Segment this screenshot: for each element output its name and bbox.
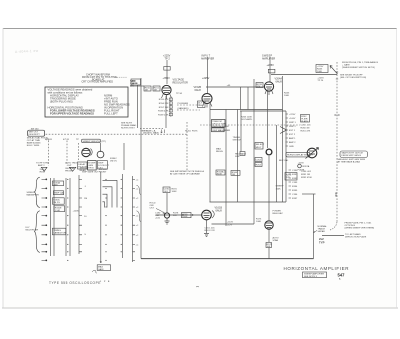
svg-text:820K: 820K	[217, 174, 223, 176]
label box R262	[301, 115, 310, 123]
label box sel note	[131, 79, 141, 85]
svg-text:1.5M: 1.5M	[55, 210, 60, 212]
label R184C	[110, 158, 117, 163]
label power regulator	[273, 211, 284, 216]
label +110V +12V	[227, 222, 234, 227]
arrow into mag gain	[100, 261, 102, 263]
svg-text:+12V: +12V	[227, 225, 233, 227]
tube V152B	[202, 94, 212, 104]
shield dashed wire vertical x337	[336, 62, 338, 222]
svg-text:MAIN: MAIN	[153, 132, 159, 135]
sweep cal wire x124	[123, 143, 125, 170]
handwriting mark n	[196, 285, 199, 288]
switch contact marks left	[42, 179, 47, 261]
svg-text:+350V: +350V	[163, 77, 171, 80]
terminal strip A labels	[289, 114, 297, 148]
svg-text:AMPLIFIER: AMPLIFIER	[262, 57, 275, 60]
title note box	[303, 272, 327, 278]
ganged dashed h y110	[177, 109, 200, 111]
timebase dashed stub	[140, 128, 163, 130]
tick labels x135	[136, 179, 139, 246]
right stack labels B	[301, 171, 312, 179]
label plunger ganged	[178, 103, 189, 110]
svg-text:SW 160: SW 160	[31, 129, 40, 131]
switch header b	[65, 167, 74, 173]
label V161 6AU8	[215, 207, 223, 213]
trace separ pointer	[314, 231, 318, 233]
svg-text:(GANGED): (GANGED)	[178, 107, 189, 110]
label help tick	[185, 131, 198, 133]
resistor R164	[216, 170, 225, 175]
switch header d	[99, 169, 108, 174]
svg-text:TYP: TYP	[319, 240, 325, 244]
svg-text:AMP 1: AMP 1	[289, 137, 296, 140]
grid flag V161	[212, 211, 214, 219]
wire C190 to holdoff	[166, 193, 168, 213]
bus wire vertical x286	[285, 111, 287, 202]
updown arrow mark	[335, 193, 336, 197]
timing switch wire x66	[65, 178, 67, 256]
note to left hand plate	[345, 233, 367, 239]
cathode wire x166	[165, 96, 167, 128]
svg-text:CKT: CKT	[150, 208, 155, 210]
resistor box R160C	[52, 198, 64, 204]
note text to pulse regulator	[342, 61, 378, 69]
resistor chain R155 group	[169, 96, 172, 117]
svg-text:R281 1M: R281 1M	[301, 174, 310, 176]
dashed drop x48	[48, 141, 50, 166]
svg-text:R261 47K: R261 47K	[301, 131, 311, 133]
label auto stab	[273, 237, 279, 243]
label mag regis	[216, 148, 223, 154]
label +225V R267 plate	[298, 163, 310, 172]
label V264A 6AU8	[275, 78, 283, 84]
svg-text:547: 547	[338, 273, 346, 278]
svg-text:BDX CAL: BDX CAL	[279, 159, 289, 162]
note text above voltage box	[82, 73, 118, 83]
resistor R176	[266, 243, 272, 248]
input wire x137	[137, 85, 139, 128]
note from plate pin	[345, 222, 375, 230]
label +350V regulator	[163, 77, 189, 84]
pin fan V152B	[203, 103, 213, 108]
svg-text:(BOTH PLUG-INS): (BOTH PLUG-INS)	[50, 100, 73, 104]
svg-text:TRIG: TRIG	[88, 167, 94, 169]
svg-text:DIST AMPL: DIST AMPL	[241, 118, 253, 121]
label R175 100K	[256, 219, 262, 224]
holdoff pointer curve	[156, 209, 165, 214]
svg-text:CRT CATHODE AMPLIFIED: CRT CATHODE AMPLIFIED	[82, 80, 114, 83]
svg-text:TYPE 555 OSCILLOSCOPE: TYPE 555 OSCILLOSCOPE	[49, 281, 101, 285]
svg-text:R267A: R267A	[303, 165, 310, 168]
bus wire vertical x226	[225, 110, 227, 227]
label dist ampl	[241, 116, 253, 121]
tube V114B small	[97, 151, 104, 158]
switch header a	[40, 169, 46, 174]
connector J267	[298, 164, 302, 168]
svg-text:R157 10K: R157 10K	[159, 107, 169, 109]
svg-text:C264: C264	[256, 159, 262, 161]
resistor R152 on supply wire	[164, 67, 170, 71]
amplifier enclosure bottom wire	[141, 258, 314, 260]
svg-text:471 R: 471 R	[63, 139, 69, 141]
tube V161	[202, 210, 212, 220]
svg-text:6AU8: 6AU8	[216, 209, 223, 212]
resistor box R239	[256, 83, 263, 88]
svg-text:GND: GND	[289, 146, 294, 148]
bus wire vertical x267 lower	[268, 156, 270, 220]
svg-text:HOLD: HOLD	[185, 131, 191, 133]
short wire x248	[247, 87, 249, 110]
svg-text:1M: 1M	[84, 198, 87, 200]
svg-text:R159 2.2K: R159 2.2K	[158, 114, 169, 116]
svg-text:PLATE: PLATE	[298, 169, 305, 172]
bus wire vertical x276	[276, 125, 278, 202]
resistor box R264	[255, 163, 262, 167]
resistor box R160A	[52, 181, 63, 186]
dashed drop x67	[66, 141, 68, 166]
contact dots column x121	[121, 179, 122, 253]
cathode wire y224	[212, 223, 255, 225]
junction dot holdoff a	[182, 214, 183, 215]
svg-text:6AU8: 6AU8	[195, 89, 202, 92]
svg-text:100K: 100K	[182, 216, 188, 218]
svg-text:R260 1M: R260 1M	[301, 128, 310, 130]
note rows left of switch mid	[121, 122, 137, 129]
tube V152A	[162, 85, 171, 94]
double arrow mark shield	[335, 114, 340, 115]
bracket dly multiplier	[35, 211, 40, 253]
timing switch bus x122	[122, 174, 124, 258]
note text to delay pickoff	[340, 74, 366, 79]
timing switch wire x54	[53, 178, 55, 256]
bus wire vertical x237	[237, 110, 239, 203]
svg-text:SEE NOTE 3: SEE NOTE 3	[304, 276, 318, 278]
svg-text:+C: +C	[136, 207, 139, 209]
short wire x240	[240, 87, 242, 110]
right stack labels	[301, 125, 312, 133]
sawtooth wide label box	[286, 152, 310, 157]
bracket sweep magnifier	[35, 177, 40, 207]
page left edge	[2, 28, 4, 308]
bus wire vertical x282	[282, 76, 284, 202]
amplifier enclosure right edge wire	[313, 194, 315, 259]
ganged control dashed wire center	[200, 124, 300, 126]
svg-text:R282 470K: R282 470K	[301, 177, 312, 179]
svg-text:1 P B: 1 P B	[100, 281, 110, 283]
svg-text:R158 4.7K: R158 4.7K	[158, 111, 169, 113]
contact ticks bus x79	[79, 179, 82, 251]
svg-text:HORIZONTAL AMPLIFIER: HORIZONTAL AMPLIFIER	[284, 266, 350, 271]
svg-text:FROM SWP GEN B: FROM SWP GEN B	[342, 155, 362, 157]
svg-text:+225V: +225V	[298, 163, 305, 165]
bus wire horizontal y202	[210, 201, 287, 203]
resistor chain labels	[158, 99, 169, 116]
ground symbol V161	[204, 234, 209, 237]
capacitor box C264	[255, 158, 262, 162]
timing capacitor box	[52, 228, 65, 235]
diode D172	[266, 149, 272, 155]
pin fan V264	[265, 90, 273, 95]
label 2x2 typ	[319, 237, 325, 244]
svg-text:FOR UPPER VOLTAGE READINGS: FOR UPPER VOLTAGE READINGS	[50, 112, 94, 116]
svg-text:GAIN: GAIN	[98, 268, 104, 271]
label help swp	[235, 154, 243, 159]
svg-text:+225V: +225V	[289, 114, 296, 116]
pin fan V152A	[162, 94, 172, 100]
svg-text:SWEEP: SWEEP	[276, 186, 284, 188]
contact ticks bus x132	[133, 179, 136, 260]
svg-text:47 Ω R: 47 Ω R	[45, 139, 52, 141]
connector arrow gt	[280, 127, 287, 134]
svg-text:47K: 47K	[257, 86, 261, 88]
bus wire horizontal y109.5	[210, 109, 283, 111]
svg-text:MULT: MULT	[256, 147, 262, 149]
page right edge	[396, 28, 398, 308]
svg-text:+C: +C	[136, 216, 139, 218]
bus wire vertical x267	[267, 91, 269, 148]
ganged control dashed wire left	[46, 133, 187, 135]
svg-text:NOTES TEXT: NOTES TEXT	[121, 127, 135, 129]
svg-text:(WHEN SWEEP VERT HERE): (WHEN SWEEP VERT HERE)	[345, 228, 375, 230]
label R245 100K mid	[284, 92, 290, 97]
arrow flag to dashed shield	[330, 66, 338, 75]
dash tail after note	[117, 76, 127, 78]
svg-text:AMP 2: AMP 2	[289, 141, 296, 144]
svg-text:TRIG: TRIG	[198, 105, 204, 107]
label timing switch	[233, 137, 242, 142]
see important note text	[170, 170, 204, 176]
supply wire x167 top	[166, 60, 168, 84]
svg-text:MAGNIFIER: MAGNIFIER	[27, 194, 40, 197]
svg-text:+C: +C	[136, 225, 139, 227]
left rate stage labels	[130, 80, 138, 88]
svg-text:PLUNGER: PLUNGER	[178, 103, 189, 105]
label box b swp dark	[88, 161, 97, 171]
svg-text:100K: 100K	[256, 221, 262, 223]
svg-text:TP 24: TP 24	[317, 80, 324, 82]
label box select mult	[255, 143, 263, 150]
label R178	[173, 213, 179, 218]
svg-text:ELEC. WFM.: ELEC. WFM.	[27, 145, 40, 147]
ckt description rounded box	[28, 130, 45, 136]
svg-text:+C: +C	[136, 198, 139, 200]
svg-text:FRONT: FRONT	[99, 171, 107, 173]
timing switch bus x132	[132, 176, 134, 262]
svg-text:FLEX: FLEX	[192, 131, 198, 133]
screen wire vertical x207	[207, 57, 209, 93]
ganged dashed h y105	[177, 104, 200, 106]
tube V183 with variable arrow	[306, 148, 319, 159]
note rows under box	[27, 136, 48, 147]
label box delay pickoff	[78, 162, 88, 169]
bus wire vertical x210	[209, 104, 211, 202]
label C161 group	[205, 228, 216, 233]
bus wire horizontal y111 right	[240, 110, 286, 112]
label V152B 6AU8	[194, 86, 202, 92]
sweep length rounded box	[82, 139, 101, 142]
arrow marks below timebase	[161, 130, 165, 134]
capacitor box C162	[240, 152, 245, 156]
svg-text:EXT 2: EXT 2	[289, 134, 296, 136]
note under sawtooth box	[338, 158, 366, 164]
bracket right a	[137, 185, 141, 195]
svg-text:C183: C183	[292, 182, 298, 184]
handwriting mark pw	[92, 270, 97, 273]
junction ticks at shield top	[336, 72, 338, 79]
svg-text:1M: 1M	[232, 174, 235, 176]
timing switch bus x79	[78, 175, 80, 254]
tube V173	[265, 221, 273, 229]
switch header c	[80, 168, 89, 173]
svg-text:R160: R160	[40, 171, 46, 173]
junction dot holdoff b	[192, 214, 193, 215]
shield elbow bottom	[330, 222, 337, 230]
label +225V TP top left	[163, 55, 171, 61]
label box R270	[285, 173, 297, 181]
svg-text:R264: R264	[256, 164, 262, 166]
timing switch wire x50	[50, 178, 52, 256]
svg-text:STAB: STAB	[273, 239, 279, 242]
svg-text:+225V: +225V	[267, 64, 275, 67]
svg-text:R187: R187	[292, 198, 298, 200]
bus wire vertical x254	[253, 79, 255, 224]
label box R245	[316, 65, 328, 73]
svg-text:(SEL CKT DESCRIPTION): (SEL CKT DESCRIPTION)	[340, 77, 366, 79]
svg-text:R185: R185	[292, 190, 298, 192]
terminal strip B labels	[292, 170, 298, 200]
svg-text:5M 2%: 5M 2%	[53, 202, 60, 204]
bracket right b	[137, 211, 141, 222]
svg-text:REGULATOR: REGULATOR	[173, 81, 189, 84]
wafer row value labels	[84, 186, 87, 236]
tube V264	[264, 82, 273, 91]
svg-text:TP 2: TP 2	[165, 57, 171, 60]
svg-text:R156 22K: R156 22K	[159, 103, 169, 105]
svg-text:FRONT: FRONT	[65, 170, 73, 172]
wire x269 to bottom	[268, 248, 270, 259]
plate supply wire x270 top	[269, 57, 271, 82]
terminal strip B ticks	[289, 170, 292, 198]
resistor R240	[268, 69, 275, 73]
contact dots column x106	[105, 179, 106, 261]
page top edge	[3, 28, 397, 30]
svg-text:+110V: +110V	[227, 222, 234, 224]
label INPUT AMPLIFIER	[201, 55, 214, 61]
page bottom edge	[2, 307, 398, 309]
ground symbol C180	[165, 221, 170, 224]
svg-text:R184: R184	[292, 186, 298, 188]
holdoff wire y215	[156, 214, 203, 216]
svg-text:10K: 10K	[267, 246, 271, 248]
svg-text:C260 .001: C260 .001	[301, 125, 312, 127]
svg-text:SWP 1: SWP 1	[289, 122, 297, 124]
svg-text:20M: 20M	[53, 184, 57, 186]
label sweep 100k	[276, 186, 284, 191]
label box swp mag	[212, 128, 225, 132]
svg-text:22K: 22K	[173, 215, 177, 217]
label box time/cm switch	[212, 120, 226, 128]
svg-text:SEPAR: SEPAR	[318, 230, 326, 233]
sweep length drop	[100, 143, 102, 152]
anode wire x269 below tube	[268, 229, 270, 242]
connector arrow down mid	[70, 167, 76, 171]
dashed drop x78	[77, 143, 79, 160]
svg-text:100K: 100K	[276, 189, 282, 191]
svg-text:C186: C186	[292, 194, 298, 196]
svg-text:AMPLIFIER: AMPLIFIER	[201, 57, 214, 60]
svg-text:27K: 27K	[286, 177, 290, 179]
label box dlyd trig	[198, 101, 206, 108]
svg-text:DELAY'D: DELAY'D	[143, 132, 152, 135]
svg-text:R161 2.2K: R161 2.2K	[205, 230, 216, 232]
capacitor C180 blob	[164, 213, 169, 218]
svg-text:AT TIME BASE A DIAG: AT TIME BASE A DIAG	[338, 161, 361, 164]
amplifier enclosure left edge wire	[140, 78, 142, 259]
svg-text:+100V: +100V	[73, 211, 80, 213]
ganged dashed vertical x187	[186, 122, 188, 170]
svg-text:MULTIPLIER: MULTIPLIER	[26, 230, 39, 232]
svg-text:CAPACITOR: CAPACITOR	[53, 231, 66, 234]
timing switch wire x70	[69, 178, 71, 256]
bus wire vertical x241	[240, 111, 242, 152]
svg-text:FULL LEFT: FULL LEFT	[104, 112, 118, 116]
label box right pickoff	[98, 161, 108, 170]
svg-text:REGIS: REGIS	[216, 151, 223, 153]
label hold off	[150, 203, 156, 210]
capacitor box C190	[163, 187, 170, 193]
transistor emitter wire x167	[166, 219, 168, 222]
resistor box R180	[182, 213, 192, 218]
tube V114	[82, 148, 90, 156]
label +225V TP right	[317, 78, 324, 83]
svg-text:SWP CAL: SWP CAL	[54, 192, 65, 195]
label normal trace separ	[318, 225, 328, 233]
sawtooth from sweep rounded box	[340, 151, 368, 158]
grid bias wire y86 left	[130, 85, 144, 87]
swp mag gain box	[97, 265, 110, 271]
terminal strip A ticks	[286, 114, 289, 146]
resistor R166	[231, 171, 240, 176]
svg-text:1M: 1M	[154, 90, 157, 92]
resistor box swp cal	[53, 191, 63, 195]
label C180 value	[155, 213, 161, 220]
svg-text:+100: +100	[155, 218, 161, 220]
contact dots column x67	[67, 179, 68, 261]
svg-text:6AU8: 6AU8	[276, 80, 283, 83]
svg-text:+C: +C	[136, 244, 139, 246]
svg-text:SWP: SWP	[235, 156, 241, 158]
svg-text:DEFLECTION PLATE: DEFLECTION PLATE	[345, 236, 367, 239]
svg-text:HORIZ DISPLAY SWITCH: HORIZ DISPLAY SWITCH	[287, 154, 313, 157]
svg-text:+225V: +225V	[202, 77, 210, 80]
svg-text:1M: 1M	[145, 90, 148, 92]
svg-text:OUT: OUT	[67, 165, 72, 167]
resistor R150	[144, 86, 151, 91]
grid flag V114	[91, 149, 93, 156]
svg-text:1M 5%: 1M 5%	[110, 160, 117, 162]
svg-text:+C: +C	[136, 235, 139, 237]
wire stub at right edge y194	[302, 193, 316, 195]
svg-text:SWITCH: SWITCH	[233, 139, 242, 141]
svg-text:TP 34: TP 34	[176, 93, 183, 95]
staircase wiring	[103, 180, 118, 207]
voltage readings note box	[45, 87, 128, 117]
svg-text:REGULAT: REGULAT	[273, 212, 284, 215]
svg-text:SWEEP LENGTH: SWEEP LENGTH	[83, 141, 101, 143]
svg-text:100K: 100K	[317, 71, 323, 73]
timing switch bus x100	[100, 172, 102, 263]
